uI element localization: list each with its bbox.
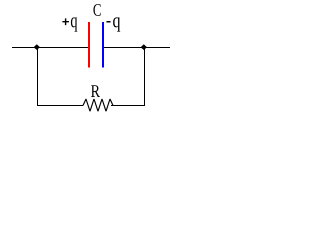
- node B: right junction dot: [141, 44, 147, 50]
- resistor R: zigzag body: [83, 99, 113, 111]
- wire: bottom lead, left segment: [37, 105, 83, 106]
- capacitor C: left plate (red, +q): [88, 22, 90, 68]
- node A: left junction dot: [34, 44, 40, 50]
- wire: top lead, right segment: [104, 47, 170, 48]
- label +q: letter q: [71, 17, 77, 31]
- wire: top lead, left segment: [12, 47, 88, 48]
- wire: right vertical branch: [144, 47, 145, 105]
- label C (capacitor designator): [93, 4, 100, 16]
- label +q: plus sign: [62, 18, 69, 25]
- label -q: minus sign: [107, 21, 111, 23]
- wire: left vertical branch: [37, 47, 38, 105]
- label -q: letter q: [113, 17, 120, 31]
- wire: bottom lead, right segment: [111, 105, 145, 106]
- capacitor C: right plate (blue, -q): [102, 22, 104, 68]
- label R (resistor designator): [91, 85, 100, 97]
